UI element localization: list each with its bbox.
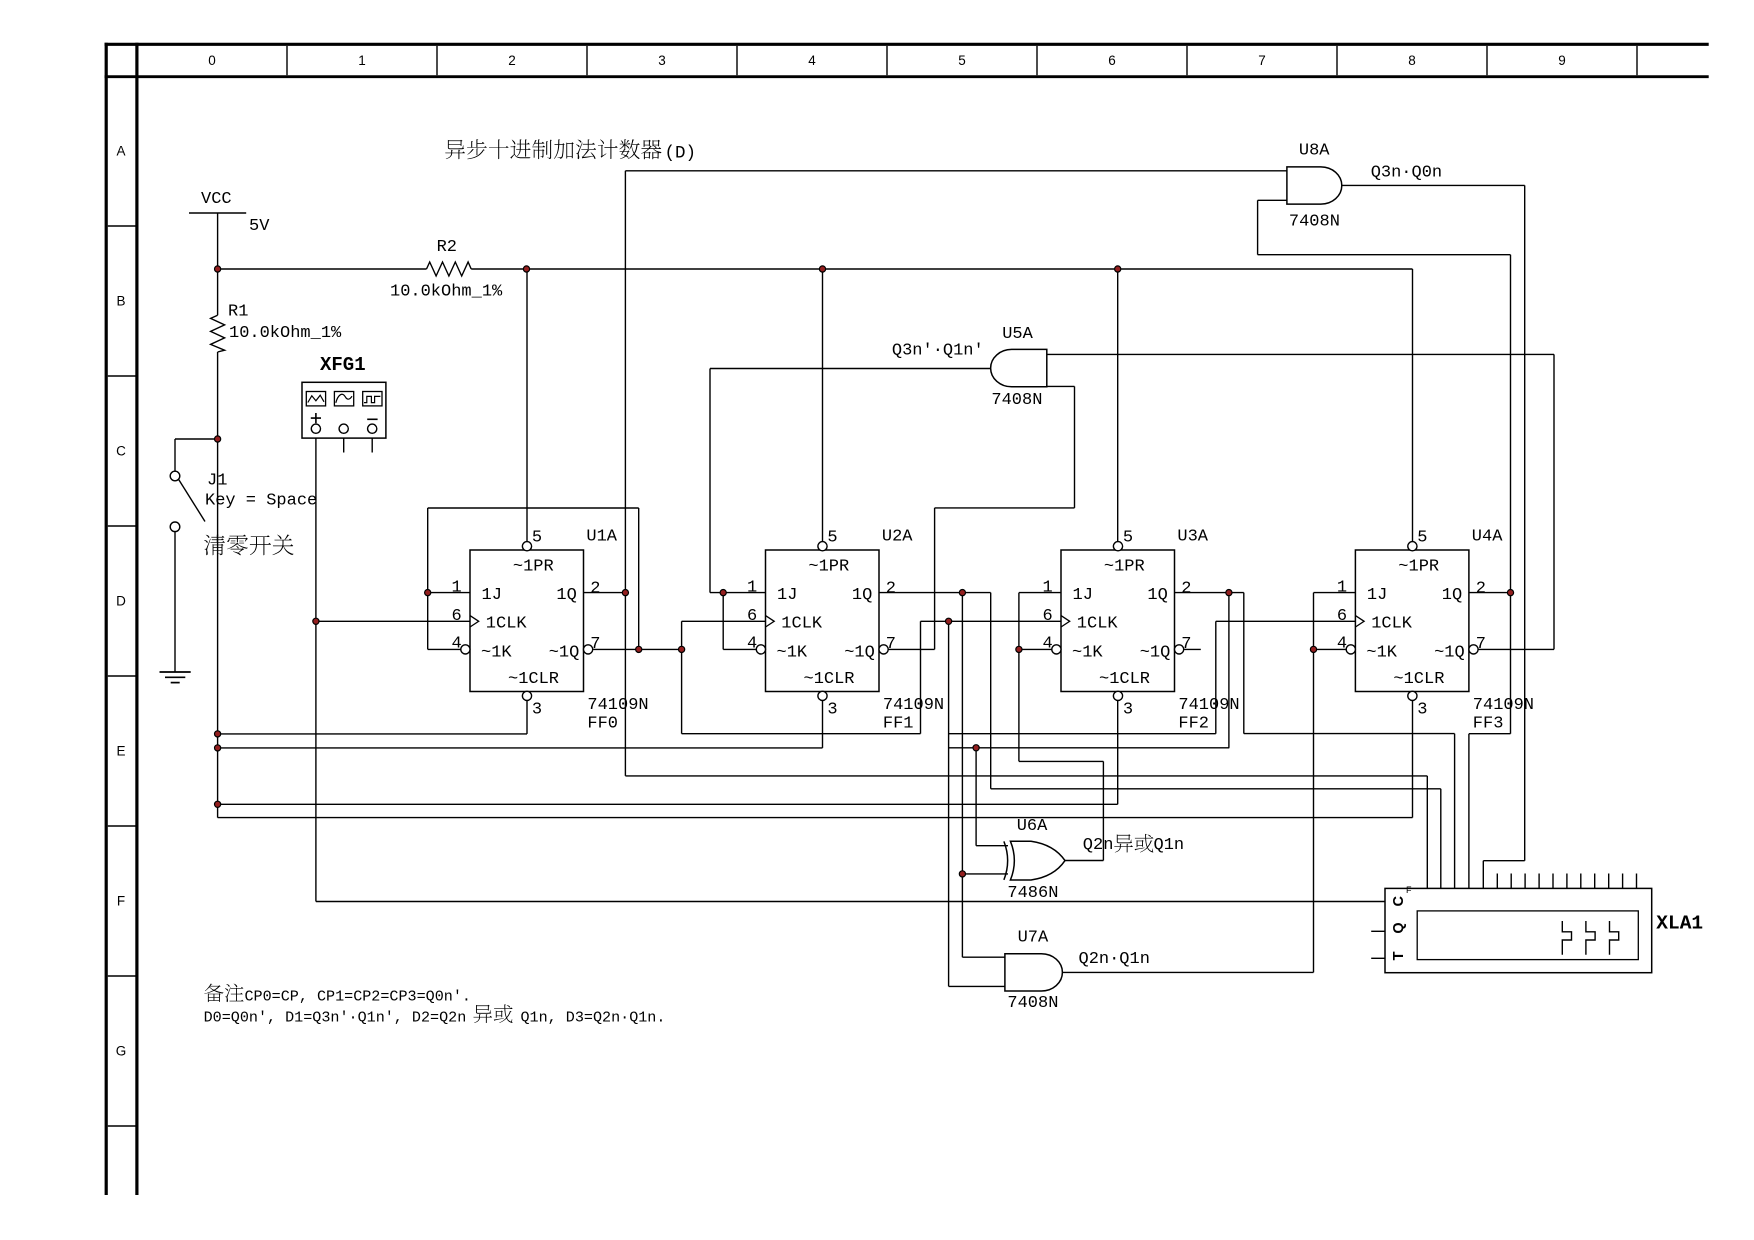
svg-text:~1CLR: ~1CLR (508, 670, 559, 689)
svg-text:4: 4 (747, 635, 757, 654)
svg-text:5: 5 (958, 53, 966, 68)
svg-text:74109N: 74109N (1473, 696, 1534, 715)
svg-text:C: C (116, 443, 126, 458)
svg-text:8: 8 (1408, 53, 1416, 68)
svg-text:Q: Q (1391, 922, 1407, 933)
svg-text:1Q: 1Q (1442, 586, 1462, 605)
svg-text:~1CLR: ~1CLR (1393, 670, 1444, 689)
svg-text:3: 3 (1417, 701, 1427, 720)
svg-text:2: 2 (1476, 579, 1486, 598)
svg-text:~1PR: ~1PR (808, 557, 849, 576)
svg-text:1Q: 1Q (852, 586, 872, 605)
svg-text:1CLK: 1CLK (781, 615, 823, 634)
svg-text:1J: 1J (777, 586, 797, 605)
svg-text:~1PR: ~1PR (1398, 557, 1439, 576)
svg-text:~1K: ~1K (777, 643, 808, 662)
svg-text:FF1: FF1 (883, 714, 914, 733)
svg-text:1J: 1J (1367, 586, 1387, 605)
svg-text:D0=Q0n', D1=Q3n'·Q1n', D2=Q2n: D0=Q0n', D1=Q3n'·Q1n', D2=Q2n (204, 1009, 467, 1027)
svg-text:6: 6 (1043, 607, 1053, 626)
svg-text:~1Q: ~1Q (549, 643, 580, 662)
svg-text:74109N: 74109N (587, 696, 648, 715)
svg-text:1CLK: 1CLK (1077, 615, 1119, 634)
svg-text:2: 2 (508, 53, 516, 68)
svg-text:10.0kOhm_1%: 10.0kOhm_1% (229, 324, 342, 343)
svg-text:G: G (116, 1043, 127, 1058)
svg-text:1: 1 (452, 578, 462, 597)
svg-text:F: F (1406, 885, 1412, 895)
svg-text:4: 4 (1043, 635, 1053, 654)
svg-text:2: 2 (590, 579, 600, 598)
svg-text:1Q: 1Q (556, 586, 576, 605)
svg-text:3: 3 (532, 701, 542, 720)
svg-text:3: 3 (1123, 701, 1133, 720)
svg-text:~1PR: ~1PR (513, 557, 554, 576)
svg-text:A: A (116, 143, 125, 158)
svg-text:3: 3 (658, 53, 666, 68)
svg-text:CP0=CP, CP1=CP2=CP3=Q0n'.: CP0=CP, CP1=CP2=CP3=Q0n'. (245, 988, 471, 1006)
svg-text:7: 7 (1181, 635, 1191, 654)
svg-text:7408N: 7408N (1007, 994, 1058, 1013)
svg-text:~1Q: ~1Q (844, 643, 875, 662)
svg-text:1CLK: 1CLK (486, 615, 528, 634)
svg-text:7486N: 7486N (1007, 884, 1058, 903)
svg-text:7408N: 7408N (991, 391, 1042, 410)
svg-text:Q1n: Q1n (1154, 836, 1185, 855)
svg-text:C: C (1391, 896, 1407, 907)
svg-text:XFG1: XFG1 (320, 354, 366, 376)
svg-text:U6A: U6A (1017, 817, 1048, 836)
svg-text:1: 1 (358, 53, 366, 68)
svg-text:4: 4 (452, 635, 462, 654)
svg-text:VCC: VCC (201, 190, 232, 209)
svg-text:~1K: ~1K (481, 643, 512, 662)
svg-text:9: 9 (1558, 53, 1566, 68)
svg-text:1: 1 (1043, 578, 1053, 597)
svg-text:1J: 1J (1073, 586, 1093, 605)
svg-text:U3A: U3A (1177, 527, 1208, 546)
svg-text:1: 1 (1337, 578, 1347, 597)
svg-text:5: 5 (532, 528, 542, 547)
svg-text:E: E (116, 743, 125, 758)
svg-text:7: 7 (1476, 635, 1486, 654)
svg-text:Q2n: Q2n (1083, 836, 1114, 855)
svg-text:(D): (D) (665, 144, 697, 164)
svg-text:Q2n·Q1n: Q2n·Q1n (1079, 950, 1150, 969)
svg-text:J1: J1 (207, 471, 227, 490)
svg-text:Key = Space: Key = Space (205, 491, 317, 510)
svg-text:6: 6 (452, 607, 462, 626)
svg-text:4: 4 (808, 53, 816, 68)
svg-text:F: F (117, 893, 125, 908)
svg-text:R2: R2 (437, 238, 457, 257)
svg-text:~1K: ~1K (1366, 643, 1397, 662)
svg-text:U1A: U1A (586, 527, 617, 546)
svg-text:0: 0 (208, 53, 216, 68)
svg-text:T: T (1391, 951, 1407, 960)
svg-text:D: D (116, 593, 126, 608)
svg-text:5: 5 (1123, 528, 1133, 547)
svg-text:1CLK: 1CLK (1371, 615, 1413, 634)
svg-text:Q1n, D3=Q2n·Q1n.: Q1n, D3=Q2n·Q1n. (521, 1009, 666, 1027)
svg-text:~1K: ~1K (1072, 643, 1103, 662)
svg-text:R1: R1 (228, 302, 248, 321)
svg-text:7408N: 7408N (1289, 213, 1340, 232)
svg-text:~1PR: ~1PR (1104, 557, 1145, 576)
svg-text:U5A: U5A (1002, 325, 1033, 344)
svg-text:FF2: FF2 (1178, 714, 1209, 733)
svg-text:7: 7 (886, 635, 896, 654)
svg-text:1Q: 1Q (1147, 586, 1167, 605)
svg-text:5: 5 (827, 528, 837, 547)
svg-text:7: 7 (590, 635, 600, 654)
svg-text:10.0kOhm_1%: 10.0kOhm_1% (390, 283, 503, 302)
svg-text:2: 2 (886, 579, 896, 598)
svg-text:1J: 1J (482, 586, 502, 605)
svg-text:~1CLR: ~1CLR (1099, 670, 1150, 689)
svg-text:1: 1 (747, 578, 757, 597)
svg-text:FF0: FF0 (587, 714, 618, 733)
svg-text:Q3n·Q0n: Q3n·Q0n (1371, 164, 1442, 183)
svg-text:6: 6 (1337, 607, 1347, 626)
svg-text:3: 3 (827, 701, 837, 720)
svg-text:U7A: U7A (1018, 929, 1049, 948)
svg-text:FF3: FF3 (1473, 714, 1504, 733)
svg-text:~1Q: ~1Q (1434, 643, 1465, 662)
svg-text:5V: 5V (249, 217, 270, 236)
svg-text:~1CLR: ~1CLR (804, 670, 855, 689)
svg-text:2: 2 (1181, 579, 1191, 598)
svg-text:~1Q: ~1Q (1140, 643, 1171, 662)
svg-text:U2A: U2A (882, 527, 913, 546)
svg-text:6: 6 (1108, 53, 1116, 68)
svg-text:Q3n'·Q1n': Q3n'·Q1n' (892, 341, 984, 360)
svg-text:U8A: U8A (1299, 142, 1330, 161)
svg-text:7: 7 (1258, 53, 1266, 68)
svg-text:B: B (116, 293, 125, 308)
svg-text:6: 6 (747, 607, 757, 626)
svg-text:XLA1: XLA1 (1656, 913, 1703, 935)
svg-text:5: 5 (1417, 528, 1427, 547)
svg-text:U4A: U4A (1472, 527, 1503, 546)
svg-text:74109N: 74109N (883, 696, 944, 715)
svg-text:4: 4 (1337, 635, 1347, 654)
svg-text:74109N: 74109N (1178, 696, 1239, 715)
